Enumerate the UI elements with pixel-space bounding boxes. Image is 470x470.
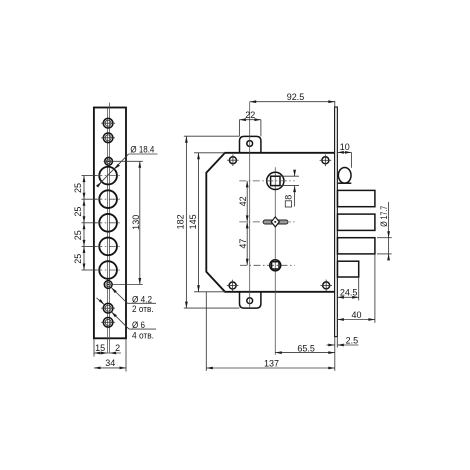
plate bend line right: [109, 103, 111, 353]
dimension 34: [94, 338, 126, 371]
dimension 65.5: [275, 343, 335, 354]
svg-text:145: 145: [188, 214, 198, 229]
screw hole S2: [101, 133, 115, 143]
top mounting tab: [240, 136, 261, 152]
label d4.2 2 holes with leader: [111, 288, 156, 314]
screw hole S4: [101, 318, 115, 328]
faceplate side view: [335, 107, 338, 337]
svg-text:22: 22: [245, 110, 255, 120]
lower spindle square: [272, 262, 279, 269]
key bit slot: [263, 220, 288, 224]
dimension 130: [104, 161, 143, 284]
deadbolt 2: [338, 214, 375, 230]
svg-text:24.5: 24.5: [340, 287, 358, 297]
svg-text:2 отв.: 2 отв.: [132, 304, 154, 314]
bolt hole B5: [95, 261, 121, 279]
dimension square 8: [280, 170, 299, 207]
screw hole S3: [101, 303, 115, 313]
svg-text:2: 2: [115, 343, 120, 353]
svg-text:25: 25: [73, 230, 83, 240]
dimension 42: [238, 181, 249, 222]
svg-text:10: 10: [340, 142, 350, 152]
svg-text:8: 8: [284, 195, 294, 200]
dimension d17.7: [377, 202, 392, 260]
dimension 182: [176, 136, 240, 308]
dimension 24.5: [337, 277, 358, 300]
dimension chain 25 x4: [73, 176, 97, 270]
svg-text:4 отв.: 4 отв.: [132, 330, 154, 340]
case screw bottom-right: [320, 280, 332, 292]
dimension 10: [337, 142, 351, 168]
rivet hole R1 (d4.2): [105, 157, 113, 165]
svg-text:25: 25: [73, 183, 83, 193]
svg-text:25: 25: [73, 207, 83, 217]
key slot diamond: [271, 217, 279, 227]
hub centerline: [239, 180, 294, 182]
key centerline: [239, 221, 294, 223]
bolt hole B2: [95, 190, 121, 208]
svg-text:34: 34: [105, 358, 115, 368]
bolt hole B3: [95, 214, 121, 232]
dimension 15 / 2: [94, 338, 121, 356]
svg-text:137: 137: [264, 358, 279, 368]
svg-text:65.5: 65.5: [297, 343, 315, 353]
lower bolt 4: [338, 261, 359, 277]
rivet hole R2 (d4.2): [104, 281, 112, 289]
svg-text:92.5: 92.5: [287, 92, 305, 102]
label d6 4 holes with leader: [97, 298, 157, 341]
spindle axis line: [274, 167, 276, 355]
dimension 2.5: [327, 335, 359, 371]
lower spindle centerline: [240, 264, 295, 266]
svg-text:2.5: 2.5: [346, 335, 359, 345]
bottom tab hole: [247, 298, 253, 304]
dimension 22: [239, 110, 261, 136]
bolt hole B4: [95, 238, 121, 256]
svg-text:15: 15: [95, 343, 105, 353]
svg-text:Ø 4.2: Ø 4.2: [132, 294, 152, 304]
spindle hub circle: [267, 172, 284, 189]
svg-text:40: 40: [351, 310, 361, 320]
faceplate plate outline: [94, 108, 126, 339]
case screw top-left: [227, 154, 239, 166]
deadbolt 1: [338, 190, 375, 206]
dimension 145: [188, 153, 225, 292]
dimension 47: [238, 222, 249, 265]
svg-text:Ø 17.7: Ø 17.7: [379, 206, 389, 227]
svg-text:182: 182: [176, 214, 186, 229]
svg-text:Ø 18.4: Ø 18.4: [130, 145, 154, 155]
latch roller cylinder: [338, 167, 351, 183]
key slot center pin: [274, 221, 276, 223]
svg-text:47: 47: [238, 239, 248, 249]
plate bend line left: [106, 108, 108, 353]
tab axis line: [249, 102, 251, 308]
svg-text:42: 42: [238, 196, 248, 206]
case screw bottom-left: [227, 280, 239, 292]
screw hole S1 top: [101, 118, 115, 128]
bolt hole B1: [95, 167, 121, 185]
spindle square hole 8mm: [271, 176, 280, 185]
top tab hole: [247, 141, 253, 147]
lower spindle circle: [270, 260, 281, 271]
label d18.4 with leader: [96, 145, 157, 188]
case screw top-right: [320, 155, 332, 167]
lock case body outline: [206, 153, 334, 292]
bottom mounting tab: [240, 292, 261, 308]
roller base line: [338, 182, 351, 184]
dimension 137: [206, 292, 334, 371]
svg-text:Ø 6: Ø 6: [132, 320, 145, 330]
svg-text:130: 130: [131, 215, 141, 230]
deadbolt 3: [338, 238, 375, 254]
dimension 40: [337, 254, 375, 323]
svg-text:25: 25: [73, 254, 83, 264]
dimension 92.5: [250, 92, 335, 107]
